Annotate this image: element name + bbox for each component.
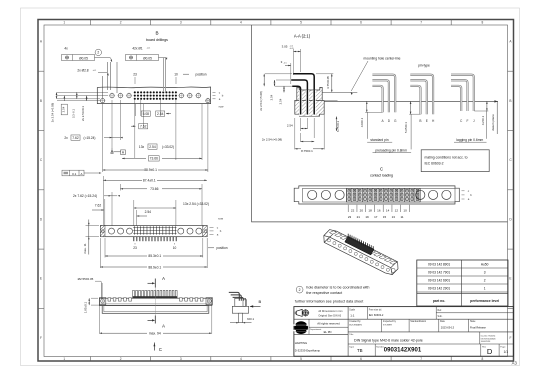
svg-text:F: F — [40, 336, 42, 340]
svg-text:+0.1: +0.1 — [93, 70, 97, 72]
svg-text:2.54: 2.54 — [145, 210, 152, 214]
side view flange — [232, 306, 248, 313]
isometric view right end — [392, 269, 398, 275]
svg-text:B: B — [258, 299, 261, 304]
svg-text:Ø0.05: Ø0.05 — [79, 57, 88, 61]
svg-text:B: B — [509, 99, 511, 103]
svg-text:2.54: 2.54 — [287, 123, 293, 127]
front view right end cap hatched — [203, 226, 208, 237]
contact loading power contacts left — [308, 190, 317, 199]
svg-text:4x: 4x — [64, 46, 68, 50]
svg-text:(=15.24): (=15.24) — [84, 136, 96, 140]
front view mounting hole left — [101, 230, 104, 233]
svg-text:10: 10 — [173, 246, 177, 250]
svg-text:part no.: part no. — [433, 299, 445, 303]
svg-text:A: A — [162, 324, 165, 329]
svg-text:A: A — [162, 276, 165, 281]
svg-text:5.3 -0.1: 5.3 -0.1 — [71, 109, 75, 118]
svg-text:2: 2 — [120, 21, 122, 25]
svg-text:IEC 60603-2: IEC 60603-2 — [425, 162, 444, 166]
svg-text:DIN Signal type M42-6 male sol: DIN Signal type M42-6 male solder 42-pol… — [354, 339, 423, 343]
extension lines dia2.8 to mounting holes — [98, 72, 107, 74]
svg-text:Ø2.55±0.05: Ø2.55±0.05 — [78, 277, 94, 281]
svg-text:6: 6 — [360, 357, 362, 361]
title block outer — [294, 307, 514, 357]
svg-text:4.2±0.1: 4.2±0.1 — [481, 115, 485, 125]
svg-text:5.08: 5.08 — [143, 112, 150, 116]
contact loading position numbers upper — [347, 205, 349, 212]
contact loading power contacts right — [416, 190, 425, 199]
dimension 4.9 standard pin — [366, 101, 368, 112]
svg-text:All rights reserved: All rights reserved — [317, 322, 340, 326]
view B power holes left — [110, 93, 114, 97]
svg-text:3.05: 3.05 — [282, 44, 288, 48]
svg-text:Type: Type — [349, 346, 355, 348]
svg-text:2x 2.54 (=5.08): 2x 2.54 (=5.08) — [51, 103, 55, 123]
zone ticks top and bottom — [90, 20, 92, 26]
front view power contacts left — [109, 228, 115, 234]
svg-text:0907374/102/084/D: 0907374/102/084/D — [481, 338, 497, 340]
svg-text:23: 23 — [348, 215, 352, 219]
svg-text:10: 10 — [403, 208, 407, 212]
outer drawing frame — [38, 20, 514, 362]
svg-text:Doc-Rev / ECM-No: Doc-Rev / ECM-No — [481, 336, 496, 338]
svg-text:E: E — [40, 277, 42, 281]
svg-text:preloading pin 0.8mm: preloading pin 0.8mm — [375, 149, 407, 153]
bottom view power pin stub — [101, 283, 103, 299]
svg-text:hole diameter is to be coordin: hole diameter is to be coordinated with — [306, 285, 369, 289]
harting logo large — [294, 321, 308, 334]
svg-text:B: B — [155, 31, 158, 36]
svg-text:7: 7 — [420, 357, 422, 361]
contact loading signal field — [347, 188, 421, 202]
svg-text:2x Ø2.8: 2x Ø2.8 — [77, 69, 88, 73]
detail enclosure box — [252, 25, 508, 222]
pin group ADG — [372, 86, 382, 112]
svg-text:TB: TB — [357, 348, 363, 353]
svg-text:87.4±0.1: 87.4±0.1 — [143, 178, 156, 182]
section A-A pins — [292, 86, 300, 113]
view B row labels — [213, 91, 216, 93]
svg-text:1: 1 — [63, 21, 65, 25]
mating conditions note box — [421, 150, 489, 172]
svg-text:13x 2.54 (=33.02): 13x 2.54 (=33.02) — [183, 202, 209, 206]
isometric view pin block dark — [345, 236, 374, 255]
svg-text:42x Ø1: 42x Ø1 — [132, 46, 143, 50]
svg-text:3: 3 — [180, 21, 182, 25]
side view solder foot — [239, 313, 243, 322]
svg-text:1: 1 — [63, 357, 65, 361]
svg-text:B: B — [40, 99, 42, 103]
svg-text:13: 13 — [392, 215, 396, 219]
view B power holes right — [179, 93, 183, 97]
svg-text:position: position — [217, 246, 228, 250]
svg-text:0.1: 0.1 — [72, 172, 77, 176]
view B plate outline — [97, 87, 210, 104]
zone ticks sides — [38, 70, 44, 72]
svg-text:5.65±0.1: 5.65±0.1 — [404, 122, 408, 133]
svg-text:Sub.: Sub. — [438, 315, 443, 318]
datum plane arrow — [494, 100, 497, 102]
svg-text:73.66: 73.66 — [150, 157, 158, 161]
svg-text:Page: Page — [500, 346, 506, 348]
contact loading row labels — [462, 190, 465, 192]
svg-text:-0.5: -0.5 — [284, 63, 287, 65]
side view body upper — [235, 298, 246, 306]
svg-text:2.54: 2.54 — [149, 145, 156, 149]
svg-text:Standardization: Standardization — [410, 320, 427, 323]
svg-text:3: 3 — [484, 270, 486, 274]
svg-text:A-A (2:1): A-A (2:1) — [294, 33, 311, 38]
svg-text:Final Release: Final Release — [470, 326, 486, 330]
svg-text:3: 3 — [180, 357, 182, 361]
svg-text:C: C — [380, 166, 383, 171]
svg-text:mounting hole center-line: mounting hole center-line — [363, 56, 400, 60]
svg-text:max. 11: max. 11 — [83, 243, 87, 254]
bottom view right ear — [206, 298, 212, 305]
svg-text:Original Size DIN A3: Original Size DIN A3 — [318, 314, 341, 317]
svg-text:0903142X901: 0903142X901 — [384, 347, 422, 353]
svg-text:19: 19 — [365, 215, 369, 219]
svg-text:Inspected by: Inspected by — [383, 320, 397, 323]
svg-text:C: C — [159, 347, 162, 352]
svg-text:standard pin: standard pin — [370, 138, 388, 142]
bottom view centerline — [154, 283, 156, 318]
svg-text:position: position — [196, 72, 207, 76]
contact loading body outline — [294, 186, 459, 204]
svg-text:E: E — [426, 119, 428, 123]
mounting hole center line at A-A — [322, 91, 357, 93]
title block grid lines — [294, 318, 514, 320]
bottom view left ear — [99, 298, 105, 305]
svg-text:Free size tol.: Free size tol. — [369, 309, 383, 312]
view B signal hole grid 42x — [134, 91, 136, 93]
side view body right step — [243, 300, 247, 307]
pin group CFJ — [451, 86, 461, 111]
svg-text:10: 10 — [174, 72, 178, 76]
svg-text:B: B — [419, 119, 421, 123]
svg-text:+0.1: +0.1 — [147, 48, 151, 50]
side view bent pins — [229, 292, 240, 300]
svg-text:7.62: 7.62 — [72, 136, 79, 140]
isometric view top bumps — [329, 231, 396, 265]
front view solder pins comb — [133, 237, 135, 242]
svg-text:the respective contact: the respective contact — [306, 291, 342, 295]
svg-text:Ø0.05: Ø0.05 — [143, 57, 152, 61]
front view left end cap hatched — [100, 226, 105, 237]
svg-text:Au50: Au50 — [481, 262, 489, 266]
svg-text:09 03 142 2901: 09 03 142 2901 — [428, 286, 450, 290]
section A-A body hatched — [297, 87, 322, 100]
svg-text:1:1: 1:1 — [350, 314, 355, 318]
svg-text:11: 11 — [400, 215, 403, 219]
svg-text:4: 4 — [240, 357, 242, 361]
svg-text:2x 2.54±0.1: 2x 2.54±0.1 — [81, 106, 85, 121]
svg-text:2023-09-13: 2023-09-13 — [441, 326, 455, 330]
svg-text:lagging pin 0.6mm: lagging pin 0.6mm — [456, 138, 483, 142]
svg-text:6: 6 — [360, 21, 362, 25]
svg-text:-0.05: -0.05 — [290, 48, 294, 50]
dimension 73.66 view B — [148, 156, 159, 161]
svg-text:BUCKMANN: BUCKMANN — [349, 323, 362, 326]
pin group BEH — [410, 86, 420, 114]
svg-text:23: 23 — [133, 246, 137, 250]
svg-text:2x: 2x — [64, 136, 68, 140]
svg-text:E: E — [509, 277, 511, 281]
svg-text:D-32339 Espelkamp: D-32339 Espelkamp — [295, 348, 321, 352]
leader 42x to grid — [159, 57, 167, 59]
svg-text:8: 8 — [482, 357, 484, 361]
svg-text:5: 5 — [300, 21, 302, 25]
svg-text:2x 7.62 (=15.24): 2x 7.62 (=15.24) — [73, 194, 97, 198]
svg-text:4.9±0.1: 4.9±0.1 — [360, 117, 364, 127]
svg-text:HARTING: HARTING — [295, 341, 308, 345]
svg-text:EL PD: EL PD — [324, 330, 332, 334]
front view signal pin field — [133, 226, 135, 234]
svg-text:18: 18 — [368, 208, 372, 212]
dimension 5.08 — [135, 104, 137, 116]
svg-text:7.62: 7.62 — [95, 204, 102, 208]
harting logo small cone and rosette — [296, 309, 302, 316]
svg-text:09 03 142 7901: 09 03 142 7901 — [428, 270, 450, 274]
note circled 2 — [296, 286, 303, 293]
circled note 2 reference — [95, 49, 101, 55]
svg-text:1/1: 1/1 — [504, 350, 509, 354]
svg-text:mating conditions not acc. to: mating conditions not acc. to — [425, 155, 468, 159]
bottom view body lower bar — [102, 306, 209, 314]
dimension 2.54 row — [160, 98, 162, 116]
svg-text:contact loading: contact loading — [370, 174, 393, 178]
parts table grid — [417, 260, 508, 306]
svg-text:09 03 142 6901: 09 03 142 6901 — [428, 278, 450, 282]
datum line — [324, 100, 498, 102]
svg-text:further information see produc: further information see product data she… — [295, 299, 363, 303]
svg-text:73.66: 73.66 — [150, 187, 158, 191]
svg-text:17: 17 — [374, 215, 378, 219]
svg-text:2x 2.54 (=5.08): 2x 2.54 (=5.08) — [262, 138, 282, 142]
svg-text:85.3±0.1: 85.3±0.1 — [148, 254, 161, 258]
svg-text:16: 16 — [377, 208, 381, 212]
svg-text:7: 7 — [420, 21, 422, 25]
view B mounting hole right — [206, 99, 210, 103]
svg-text:row: row — [218, 216, 224, 220]
section arrow A top — [154, 279, 156, 288]
svg-text:2.54: 2.54 — [279, 98, 283, 104]
svg-text:1000025238: 1000025238 — [481, 341, 490, 343]
svg-text:pin-type: pin-type — [418, 64, 430, 68]
svg-text:12: 12 — [395, 208, 399, 212]
svg-text:Scale: Scale — [349, 310, 355, 312]
svg-text:8.75±0.1: 8.75±0.1 — [301, 149, 313, 153]
front view mounting hole right — [204, 230, 207, 233]
dimension 7.62 below B — [142, 104, 144, 128]
svg-text:row: row — [219, 105, 225, 109]
svg-text:board drillings: board drillings — [146, 38, 168, 42]
svg-text:F: F — [467, 119, 469, 123]
svg-text:Ref.: Ref. — [438, 309, 443, 312]
svg-text:4: 4 — [240, 21, 242, 25]
svg-text:State: State — [470, 320, 476, 323]
svg-text:8: 8 — [482, 21, 484, 25]
svg-text:performance level: performance level — [470, 299, 499, 303]
dimension 4.2 lagging pin — [486, 101, 488, 111]
view arrow B — [250, 305, 253, 307]
svg-text:2.54: 2.54 — [62, 106, 66, 112]
svg-text:20: 20 — [360, 208, 364, 212]
svg-text:STOBER: STOBER — [383, 324, 392, 326]
svg-text:3.75±0.05: 3.75±0.05 — [326, 76, 330, 89]
preloading pin leader — [410, 114, 412, 149]
svg-text:F: F — [510, 336, 512, 340]
bottom view body upper bar — [99, 298, 211, 305]
bottom view side notches left — [108, 298, 111, 301]
svg-text:IEC 60603-2: IEC 60603-2 — [369, 313, 384, 317]
leader 4x to holes — [95, 57, 111, 59]
section A-A pin channels white — [299, 90, 302, 116]
svg-text:15: 15 — [383, 215, 387, 219]
svg-text:2: 2 — [120, 357, 122, 361]
svg-text:2.54: 2.54 — [269, 94, 273, 100]
svg-text:datum plane: datum plane — [491, 114, 495, 131]
svg-text:14: 14 — [386, 208, 390, 212]
view arrow C — [153, 343, 155, 351]
svg-text:6±0.1: 6±0.1 — [247, 317, 254, 321]
isometric view connector body — [324, 230, 398, 275]
svg-text:22: 22 — [351, 208, 355, 212]
dimension 2.54 boxed rotated left — [61, 104, 67, 115]
svg-text:1.85±0.1: 1.85±0.1 — [84, 301, 88, 313]
lagging pin leader — [486, 111, 488, 139]
svg-text:13x: 13x — [139, 145, 145, 149]
svg-text:max. 94: max. 94 — [149, 331, 161, 335]
svg-text:1: 1 — [484, 286, 486, 290]
dimension 5.65 preloading pin — [410, 101, 412, 114]
datum A flag — [121, 150, 126, 155]
svg-text:2: 2 — [484, 278, 486, 282]
svg-text:5: 5 — [300, 357, 302, 361]
flatness tolerance frame — [62, 170, 84, 176]
section A-A base hatched — [295, 100, 324, 116]
svg-text:A: A — [80, 172, 82, 176]
svg-text:09 03 142 8901: 09 03 142 8901 — [428, 262, 450, 266]
svg-text:2: 2 — [97, 51, 99, 55]
svg-text:(=33.02): (=33.02) — [162, 145, 174, 149]
isometric view front face cavities — [327, 239, 389, 272]
inner drawing frame — [44, 25, 508, 357]
svg-text:Date: Date — [440, 320, 446, 323]
svg-text:All Dimensions in mm: All Dimensions in mm — [318, 310, 342, 313]
front view body — [100, 226, 207, 237]
bottom view side notches right — [180, 298, 183, 301]
front view position labels — [134, 243, 136, 245]
section arrow A bottom — [154, 316, 156, 324]
view B mounting hole left — [101, 99, 105, 103]
svg-text:23: 23 — [133, 72, 137, 76]
svg-text:2.54: 2.54 — [157, 112, 164, 116]
svg-text:88.9±0.1: 88.9±0.1 — [148, 265, 161, 269]
bottom view center pin comb dark — [133, 290, 135, 298]
svg-text:A3: A3 — [512, 361, 518, 366]
svg-text:7.62: 7.62 — [140, 124, 147, 128]
svg-text:Created by: Created by — [349, 320, 361, 323]
svg-text:D: D — [487, 347, 493, 356]
svg-text:2x 2.54 (=5.08): 2x 2.54 (=5.08) — [259, 91, 263, 111]
svg-text:88.9±0.1: 88.9±0.1 — [144, 168, 157, 172]
svg-text:2: 2 — [299, 288, 301, 292]
contact loading inner rect — [303, 188, 456, 202]
svg-text:Department: Department — [310, 328, 322, 331]
svg-text:21: 21 — [357, 215, 361, 219]
standard pin leader — [366, 112, 368, 139]
front view power contacts right — [178, 228, 184, 234]
